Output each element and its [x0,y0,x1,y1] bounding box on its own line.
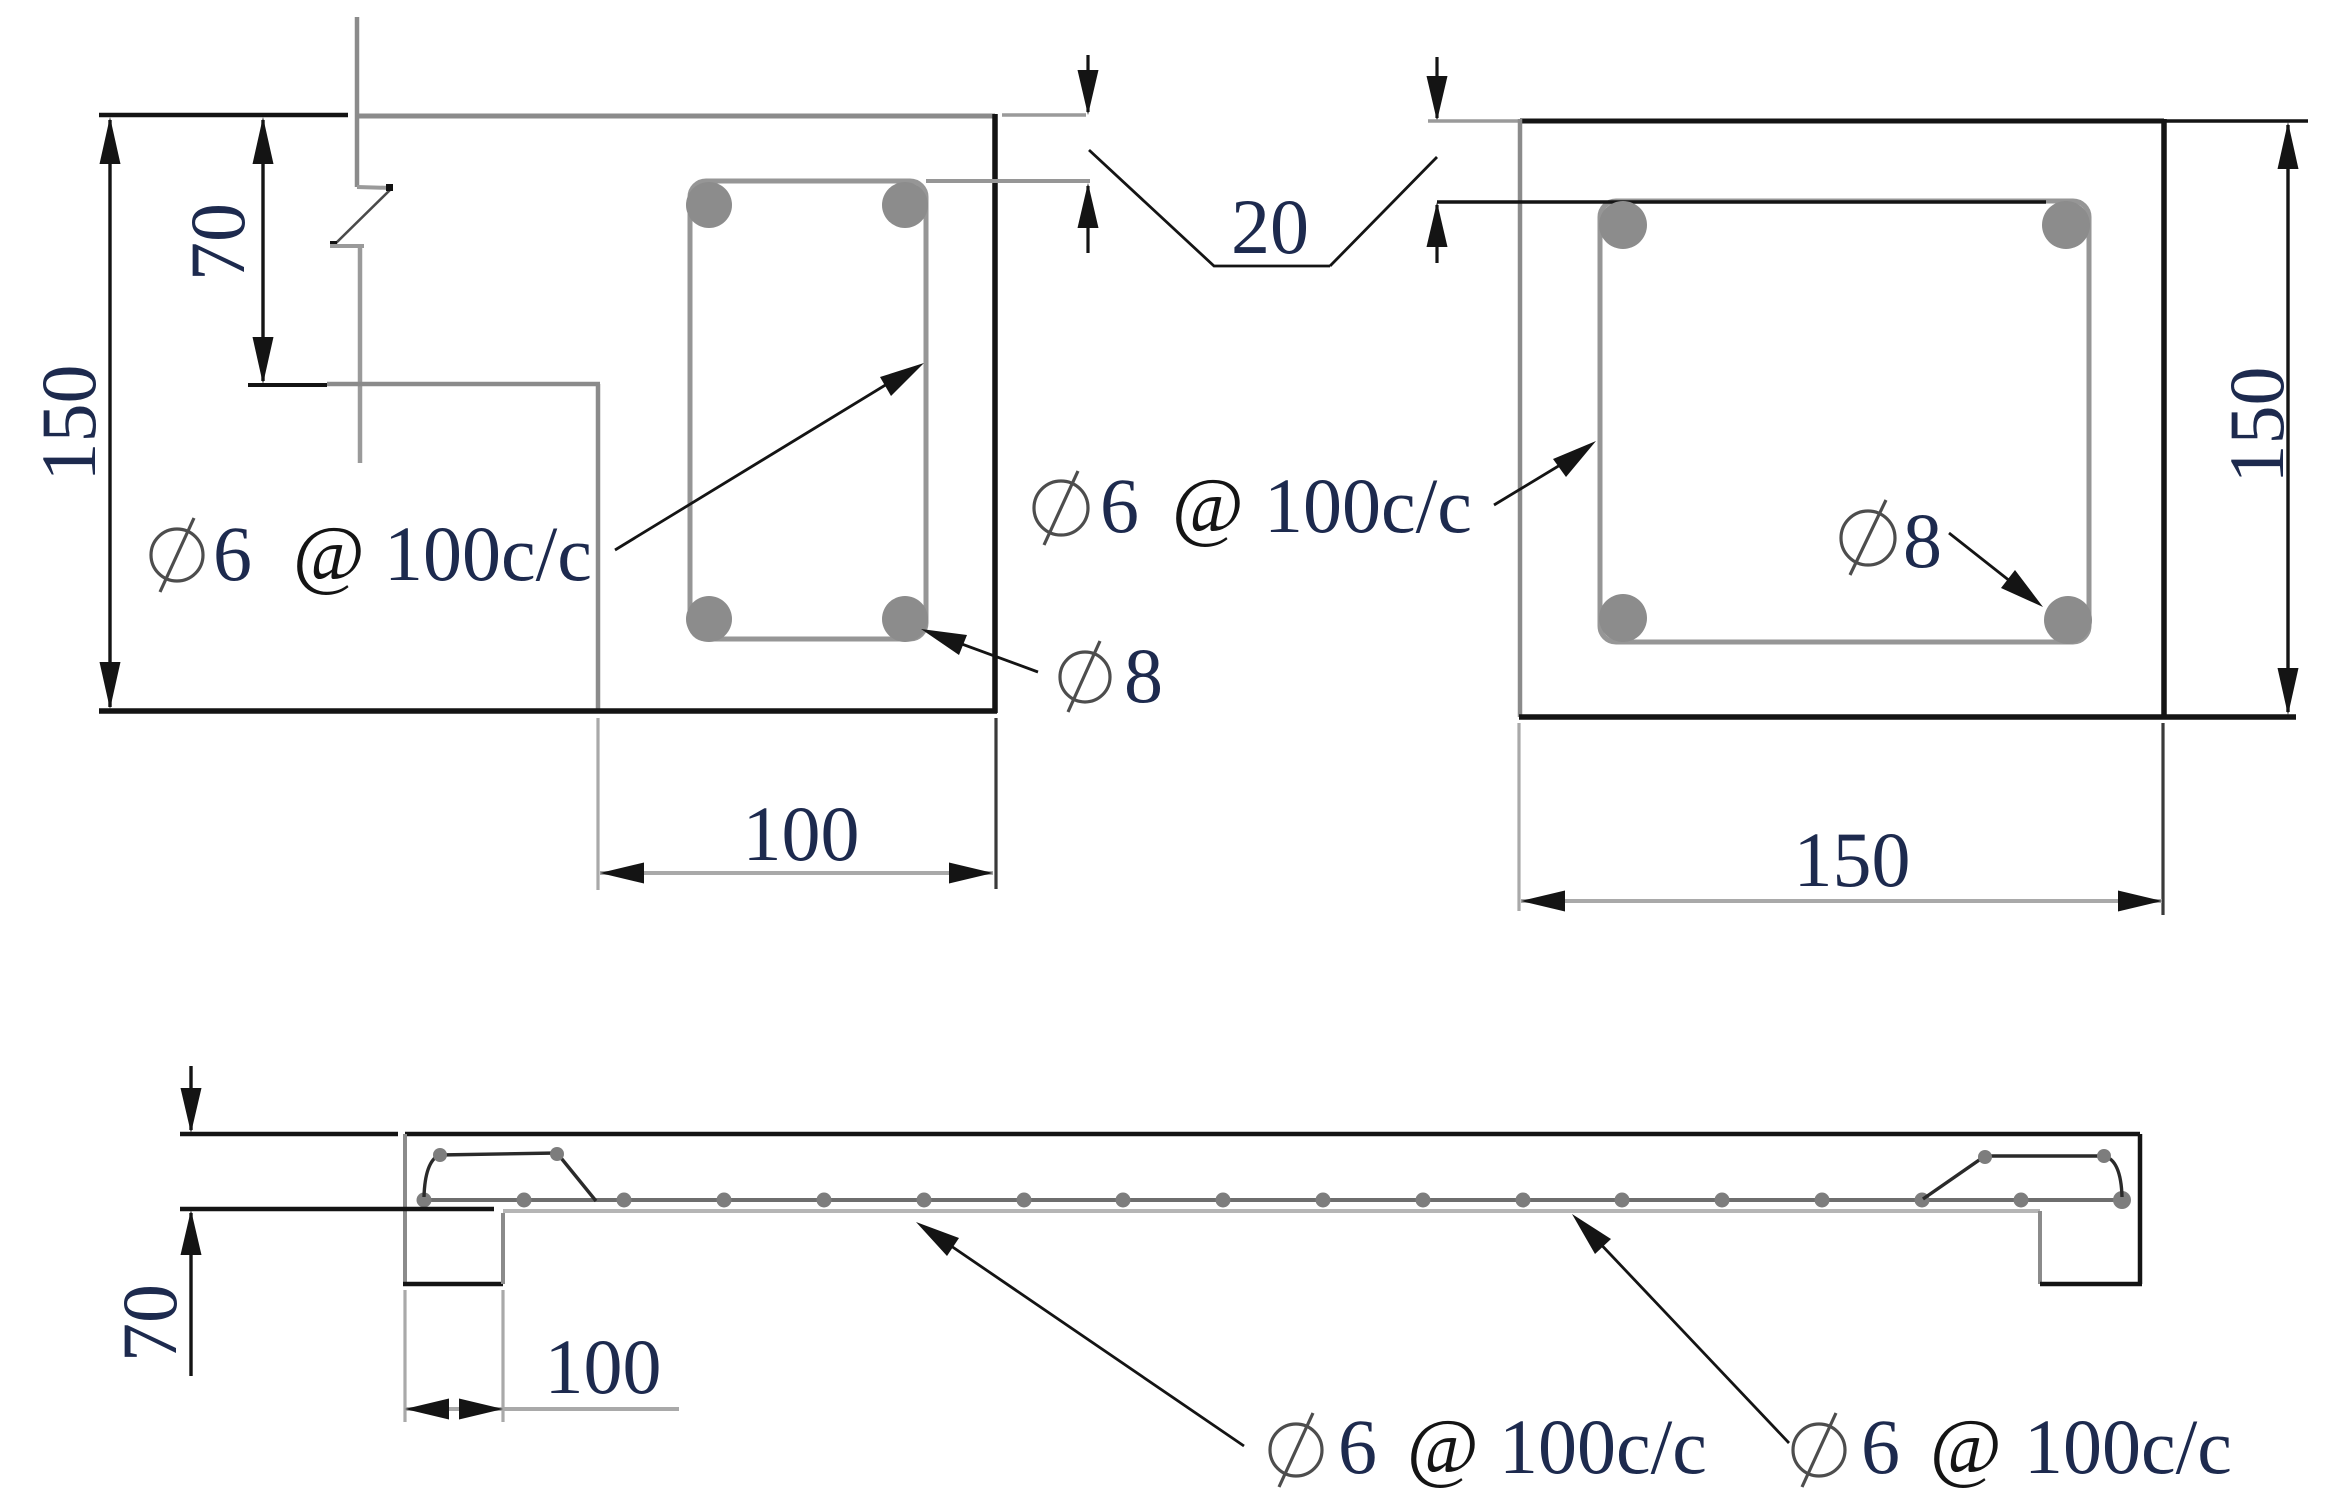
svg-text:@: @ [293,510,365,597]
svg-text:@: @ [1930,1403,2002,1490]
leader from label to stirrup [615,363,924,550]
rebar top-left [686,182,732,228]
flange soffit step [327,382,600,387]
svg-text:6: 6 [1861,1403,1900,1490]
mesh bar dots [417,1191,2132,1209]
right rib left edge [2038,1211,2042,1284]
cover dim line (right, at gap 20) [1427,57,1519,263]
label phi6 @ 100c/c (bottom right) [1793,1403,2232,1490]
leader 2 (bottom) [1572,1214,1789,1443]
label phi6 @ 100c/c (right) [1034,462,1472,549]
section right edge [2161,119,2167,719]
stirrup (right section) [1600,201,2089,642]
svg-text:100c/c: 100c/c [2024,1403,2232,1490]
dimension 150 (left) [25,115,348,709]
stirrup top extension line (black) [1437,200,2046,204]
svg-text:100: 100 [743,790,860,877]
rebar bottom-right [2044,596,2092,644]
right rib bottom [2040,1282,2142,1287]
svg-text:150: 150 [25,365,112,482]
bent-up bar left end [424,1147,596,1201]
svg-text:@: @ [1407,1403,1479,1490]
rebar bottom-left [686,596,732,642]
cover dim line (left, at gap 20) [1002,55,1099,253]
label phi6 @ 100c/c (bottom left) [1270,1403,1707,1490]
rebar top-right [2042,201,2090,249]
svg-text:6: 6 [213,510,252,597]
svg-text:@: @ [1172,462,1244,549]
svg-text:6: 6 [1100,462,1139,549]
bent-up bar right end [1923,1149,2122,1199]
svg-text:100c/c: 100c/c [384,510,592,597]
svg-text:8: 8 [1903,497,1942,584]
svg-text:70: 70 [106,1284,193,1362]
svg-text:100: 100 [545,1323,662,1410]
svg-text:70: 70 [174,203,261,281]
break line lower vertical [330,246,364,463]
dimension 150 (right vertical) [2213,122,2300,715]
slab soffit [503,1209,2040,1213]
stirrup top extension line [926,179,1090,183]
label 20 with leaders [1089,150,1437,270]
section bottom edge [1519,714,2296,720]
label phi8 (left) with leader [921,629,1163,719]
rebar bottom-left [1599,594,1647,642]
section left edge [1518,119,1523,717]
break line diagonal [330,184,393,248]
plank top surface [405,1132,2140,1137]
rebar bottom-right [882,596,928,642]
break line upper vertical [357,17,392,188]
rebar top-left [1599,201,1647,249]
svg-text:100c/c: 100c/c [1264,462,1472,549]
dimension 100 (bottom of left section) [598,718,996,890]
left rib right edge [501,1213,505,1284]
rebar top-right [882,182,928,228]
svg-text:20: 20 [1231,183,1309,270]
leader 1 (bottom) [916,1222,1244,1446]
plank left edge [403,1134,407,1284]
svg-text:150: 150 [2213,367,2300,484]
section bottom edge [99,708,997,714]
top edge extension [2164,119,2308,122]
leader to right stirrup [1494,441,1596,505]
section right edge [992,114,998,713]
dimension 70 (top left) [174,117,327,385]
bottom mesh chain line [421,1198,2125,1202]
dimension 150 (right bottom) [1519,723,2163,915]
svg-text:6: 6 [1338,1403,1377,1490]
stirrup (left section) [690,181,926,639]
plank right edge [2138,1134,2143,1284]
rib left edge [596,384,601,711]
svg-text:8: 8 [1124,632,1163,719]
flange top edge [355,114,995,119]
dimension 100 (bottom figure) [405,1290,679,1422]
left rib bottom [403,1282,503,1287]
svg-text:100c/c: 100c/c [1499,1403,1707,1490]
svg-text:150: 150 [1794,816,1911,903]
label phi6 @ 100c/c (left) [151,510,592,597]
section top edge [1520,119,2164,124]
label phi8 (right) with leader [1841,497,2043,607]
dimension 70 (bottom figure) [106,1066,494,1376]
